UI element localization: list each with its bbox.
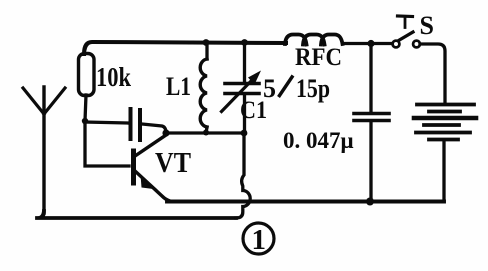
capacitor C1 variable: [222, 43, 262, 133]
svg-text:5: 5: [263, 74, 276, 103]
svg-text:1: 1: [252, 224, 267, 256]
inductor L1: [200, 42, 207, 133]
switch S: [393, 16, 420, 47]
svg-text:RFC: RFC: [295, 44, 342, 71]
wire top rail: [84, 42, 286, 54]
transistor VT: [134, 135, 171, 201]
wire tank-bottom drop with hop over emitter rail: [236, 134, 250, 218]
capacitor C feedback: [85, 109, 166, 140]
capacitor 0.047u: [354, 44, 389, 201]
wire bottom rail (antenna to tank bottom): [37, 211, 236, 218]
svg-text:S: S: [420, 11, 434, 40]
node bypass cap bottom: [366, 198, 374, 206]
svg-text:VT: VT: [155, 148, 191, 179]
node bypass cap top: [367, 40, 374, 47]
svg-text:10k: 10k: [96, 62, 131, 92]
node collector junction: [162, 129, 169, 136]
wire switch to battery top: [420, 44, 445, 103]
svg-text:0. 047μ: 0. 047μ: [283, 128, 354, 153]
node C1 bottom: [241, 130, 248, 137]
node junction (res / cap / base): [82, 118, 88, 124]
node L1 top: [203, 39, 210, 46]
node C1 top: [241, 39, 248, 46]
wire tank bottom (collector to C1): [166, 131, 244, 134]
wire junction down to base: [85, 121, 129, 166]
node L1 bottom: [203, 130, 209, 136]
wire emitter rail (to battery minus): [167, 200, 444, 204]
antenna: [23, 87, 65, 213]
wire battery bottom to rail: [442, 141, 445, 202]
wire RFC to switch: [344, 42, 392, 45]
resistor R 10k: [79, 54, 95, 96]
wire resistor bottom to junction: [85, 95, 86, 121]
svg-text:L1: L1: [166, 72, 191, 101]
svg-text:15p: 15p: [296, 74, 330, 103]
figure number 1 circled: [243, 223, 274, 256]
inductor RFC: [285, 35, 343, 45]
battery GB: [414, 105, 476, 140]
